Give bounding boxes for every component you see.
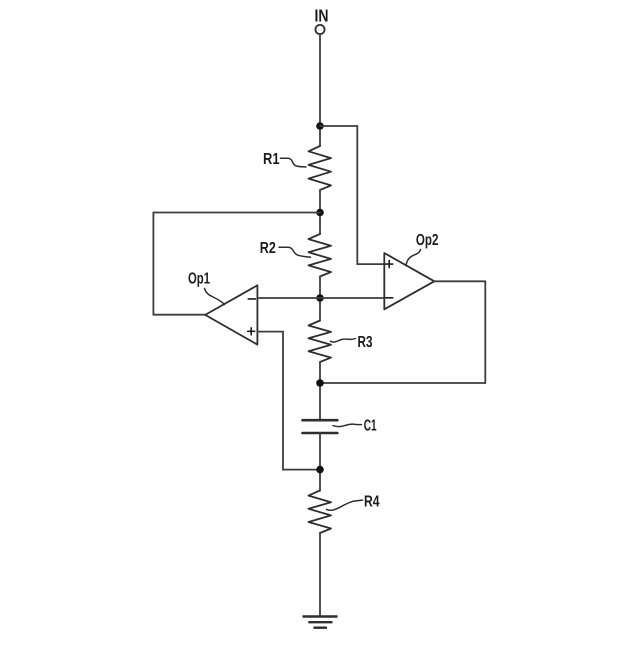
svg-text:R4: R4 [364,494,380,511]
svg-text:C1: C1 [364,417,377,434]
wire Op2 output right [434,280,485,282]
op-amp Op2 [384,232,438,309]
node junction R3 bottom feedback [316,379,324,387]
wire R3 bottom to C1 top plate [319,362,321,420]
ground [303,617,338,628]
resistor R1 [263,146,331,190]
svg-text:Op2: Op2 [416,232,439,249]
svg-text:R1: R1 [263,151,280,168]
resistor R3 [309,321,373,363]
node IN [315,6,329,34]
wire R1 bottom to R2 top [319,190,321,234]
wire to Op1 output tip [153,314,205,316]
svg-text:R2: R2 [260,240,276,257]
wire Op1 plus input down segment [282,332,284,470]
wire Op1 plus input to C1 bottom junction [283,469,320,471]
wire down to Op2 plus level [356,126,358,264]
wire feedback left to R3 bottom junction [320,382,485,384]
wire feedback down right side [484,281,486,383]
node junction below R1 [316,209,324,217]
op-amp Op1 [188,270,257,344]
wire IN terminal down to R1 top [319,34,321,146]
wire R4 bottom to ground [319,533,321,616]
wire Op1 plus input right segment [257,331,283,333]
wire down left side [152,213,154,315]
wire branch right from top junction [320,125,357,127]
svg-text:Op1: Op1 [188,270,210,287]
capacitor C1 [303,417,377,434]
svg-text:IN: IN [315,6,329,26]
wire into Op2 plus input [357,263,384,265]
resistor R2 [260,234,331,277]
wire Op1 minus input to Op2 minus input through junction [257,297,384,299]
svg-text:R3: R3 [358,334,373,351]
node junction between R2 and R3 [316,294,324,302]
node junction C1 bottom [316,466,324,474]
wire C1 bottom plate to R4 top [319,433,321,491]
resistor R4 [309,491,380,534]
wire R2 bottom to R3 top [319,277,321,321]
wire left branch from junction to feedback corner [153,212,320,214]
node junction at R1 top [316,122,324,130]
